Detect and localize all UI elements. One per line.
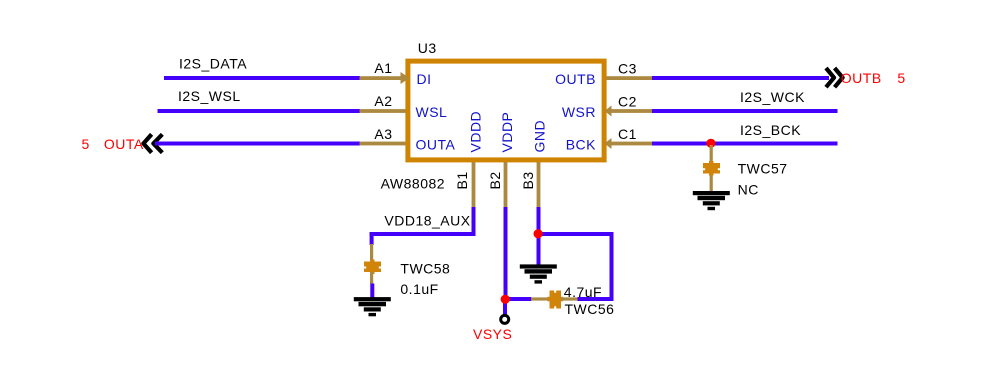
wire GND drop to ground symbol	[537, 236, 541, 267]
wire OUTB	[652, 76, 829, 80]
wire GND vertical from B3	[537, 207, 541, 236]
svg-text:AW88082: AW88082	[381, 175, 445, 191]
capacitor TWC57	[703, 161, 720, 176]
capacitor TWC58 top lead	[370, 244, 373, 262]
pin B1 stub (VDDD)	[472, 162, 476, 207]
off-page connector OUTA	[143, 134, 162, 152]
ground (TWC58)	[354, 297, 391, 316]
pin B3 stub (GND)	[537, 162, 541, 207]
svg-text:VSYS: VSYS	[473, 326, 512, 342]
svg-text:OUTA: OUTA	[416, 137, 456, 153]
wire GND loop bottom	[578, 297, 614, 301]
pin B2 stub (VDDP)	[504, 162, 508, 207]
svg-text:TWC57: TWC57	[738, 160, 788, 176]
capacitor TWC58 bottom lead	[370, 272, 373, 284]
svg-text:I2S_DATA: I2S_DATA	[179, 56, 247, 72]
wire I2S_WCK	[652, 109, 838, 113]
pin C1 input arrow	[605, 138, 612, 149]
pin A3 stub (OUTA)	[360, 142, 406, 146]
svg-text:VDDP: VDDP	[499, 112, 515, 153]
wire GND loop top	[541, 232, 614, 236]
pin A1 stub (DI)	[360, 76, 406, 80]
wire VSYS to TWC56	[506, 297, 532, 301]
svg-text:OUTA: OUTA	[104, 136, 144, 152]
svg-text:C1: C1	[618, 126, 637, 142]
svg-text:OUTB: OUTB	[841, 70, 882, 86]
wire OUTA	[155, 142, 360, 146]
ground (TWC57)	[693, 191, 730, 210]
svg-text:I2S_BCK: I2S_BCK	[740, 122, 801, 138]
svg-text:VDDD: VDDD	[468, 111, 484, 153]
capacitor TWC57 lead	[710, 145, 713, 193]
svg-text:B3: B3	[520, 171, 536, 189]
svg-text:5: 5	[82, 136, 90, 152]
pin A1 input arrow	[401, 72, 410, 84]
capacitor TWC56	[548, 291, 564, 309]
wire VDD18_AUX vertical from B1	[472, 207, 476, 236]
svg-text:0.1uF: 0.1uF	[400, 281, 438, 297]
power connector VSYS ring	[501, 315, 509, 323]
wire VDD18_AUX horizontal	[370, 232, 476, 236]
wire I2S_BCK	[652, 142, 838, 146]
svg-text:WSR: WSR	[562, 104, 596, 120]
ground (GND net)	[520, 264, 557, 283]
svg-text:B1: B1	[454, 171, 470, 189]
svg-text:C3: C3	[618, 60, 637, 76]
IC U3 body	[408, 61, 604, 160]
wire TWC58 to ground	[370, 284, 374, 298]
junction GND node	[534, 229, 543, 238]
svg-text:NC: NC	[738, 182, 759, 198]
off-page connector OUTB	[826, 68, 843, 87]
capacitor TWC56 right lead	[561, 297, 578, 300]
svg-text:U3: U3	[418, 40, 437, 56]
svg-text:DI: DI	[417, 71, 432, 87]
svg-text:WSL: WSL	[416, 104, 448, 120]
pin C3 stub (OUTB)	[606, 76, 652, 80]
junction VSYS node	[501, 295, 510, 304]
svg-text:A1: A1	[374, 60, 392, 76]
pin C2 stub (WSR)	[611, 109, 652, 113]
svg-text:TWC58: TWC58	[400, 261, 450, 277]
svg-text:I2S_WSL: I2S_WSL	[178, 88, 241, 104]
wire GND loop right vertical	[610, 232, 614, 301]
svg-text:B2: B2	[487, 171, 503, 189]
pin C1 stub (BCK)	[611, 142, 652, 146]
capacitor TWC56 left lead	[531, 297, 550, 300]
wire VDD18_AUX drop to TWC58	[370, 232, 374, 245]
pin A2 stub (WSL)	[360, 109, 406, 113]
svg-text:5: 5	[897, 70, 905, 86]
svg-text:OUTB: OUTB	[555, 71, 596, 87]
wire VSYS stub down	[503, 301, 507, 315]
pin C2 input arrow	[605, 106, 612, 117]
capacitor TWC58	[364, 260, 381, 275]
svg-text:TWC56: TWC56	[565, 301, 615, 317]
svg-text:A3: A3	[374, 126, 392, 142]
svg-text:C2: C2	[618, 93, 637, 109]
wire VDDP from B2 down to VSYS	[504, 207, 508, 302]
svg-text:VDD18_AUX: VDD18_AUX	[384, 212, 470, 228]
svg-text:BCK: BCK	[566, 137, 596, 153]
wire I2S_DATA	[164, 76, 360, 80]
wire I2S_WSL	[158, 109, 361, 113]
svg-text:I2S_WCK: I2S_WCK	[740, 89, 805, 105]
junction I2S_BCK / TWC57	[706, 139, 715, 148]
svg-text:A2: A2	[374, 93, 392, 109]
svg-text:GND: GND	[532, 120, 548, 153]
